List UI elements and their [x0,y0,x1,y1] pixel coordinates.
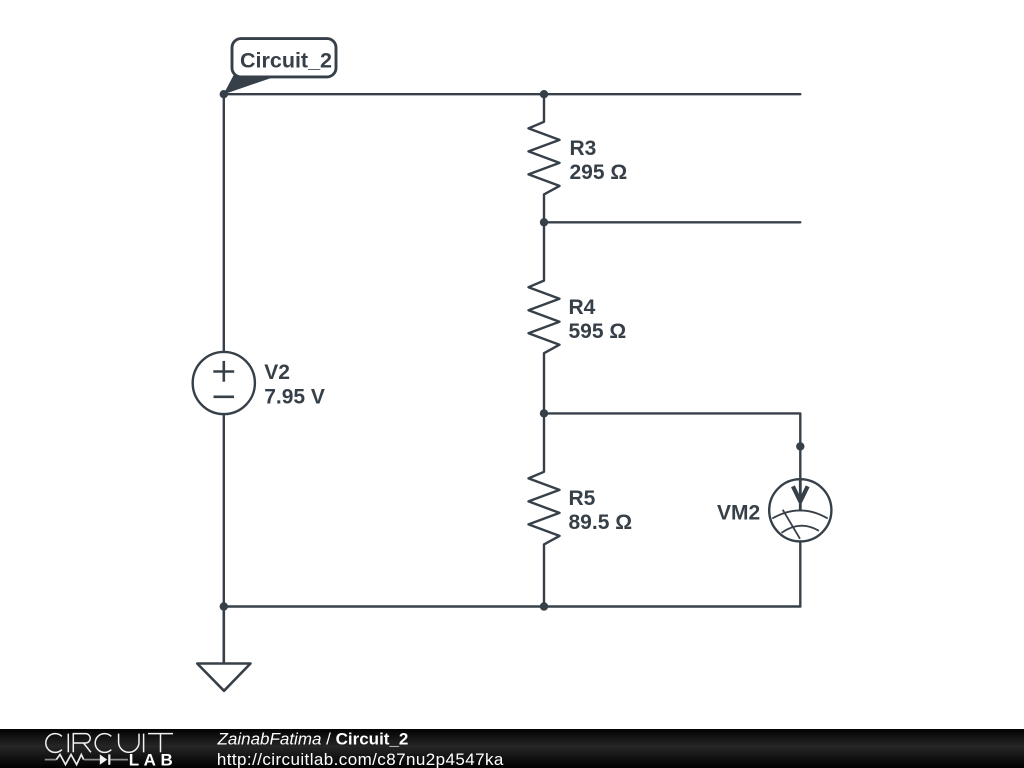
wire voltmeter bottom lead [799,541,801,606]
logo resistor-diode squiggle [45,754,128,764]
voltage source V2 circle [193,352,255,414]
svg-text:R4: R4 [569,296,596,319]
node bottom-left [220,602,228,610]
voltmeter VM2 circle [769,479,831,541]
svg-text:295 Ω: 295 Ω [570,161,628,184]
svg-text:595 Ω: 595 Ω [569,320,627,343]
label R5 value [569,487,633,534]
resistor R5 [529,413,560,606]
label bubble Circuit_2 [225,39,337,94]
svg-text:ZainabFatima / Circuit_2: ZainabFatima / Circuit_2 [217,730,409,749]
voltmeter needle [783,510,800,539]
voltmeter arrow stem [799,479,802,511]
label V2 value [264,361,325,409]
ground [197,607,250,691]
svg-text:V2: V2 [264,361,290,384]
svg-text:89.5 Ω: 89.5 Ω [569,511,633,534]
wire bottom horizontal [224,605,801,607]
svg-text:7.95 V: 7.95 V [264,386,325,409]
label R4 value [569,296,627,343]
resistor R3 [529,94,560,222]
wire left rail lower [223,414,225,606]
wire third horizontal [544,413,800,479]
V2 minus sign [214,395,235,398]
footer bar [0,729,1024,768]
node top-middle [540,90,548,98]
voltmeter arrowhead [793,486,808,501]
svg-text:R5: R5 [569,487,596,510]
V2 plus sign [213,361,234,382]
node top-left [220,90,228,98]
wire top horizontal [224,93,801,95]
label R3 value [570,137,628,184]
node voltmeter top [796,442,804,450]
wire second horizontal [544,221,800,223]
logo CIRCUIT letters [46,734,173,753]
node R4-R5 [540,409,548,417]
svg-text:R3: R3 [570,137,597,160]
voltmeter gauge lower arc [782,526,819,533]
svg-text:VM2: VM2 [717,502,760,525]
svg-text:Circuit_2: Circuit_2 [240,49,332,73]
wire left rail upper [223,94,225,352]
svg-text:http://circuitlab.com/c87nu2p4: http://circuitlab.com/c87nu2p4547ka [217,750,504,768]
voltmeter gauge upper arc [772,510,827,518]
node bottom-middle [540,602,548,610]
node R3-R4 [540,218,548,226]
svg-text:LAB: LAB [129,750,177,768]
resistor R4 [529,222,560,413]
